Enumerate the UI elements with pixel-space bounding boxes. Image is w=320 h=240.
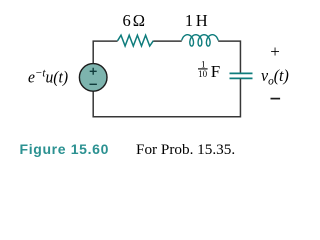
capacitor C bottom plate — [230, 77, 253, 79]
svg-text:10: 10 — [198, 69, 208, 79]
capacitor C top plate — [230, 72, 253, 74]
voltage source minus sign — [90, 83, 97, 85]
wire left branch: from source top up and right to resistor — [93, 41, 117, 63]
svg-text:e−tu(t): e−tu(t) — [28, 67, 68, 87]
svg-text:6Ω: 6Ω — [123, 11, 145, 30]
label capacitor value fraction bar — [198, 68, 208, 70]
caption For Prob. 15.35. — [136, 141, 235, 159]
svg-text:F: F — [211, 62, 220, 81]
wire between resistor and inductor — [153, 40, 181, 42]
voltage source VS circle — [79, 64, 107, 92]
svg-text:vo(t): vo(t) — [261, 66, 289, 88]
caption Figure 15.60 — [20, 141, 110, 157]
inductor L 1H coil — [182, 35, 219, 46]
svg-text:+: + — [270, 42, 280, 61]
label minus output polarity — [271, 98, 281, 100]
wire from capacitor bottom plate down, along bottom, up to source bottom — [93, 79, 240, 117]
label vo(t) output voltage — [261, 66, 289, 88]
wire from inductor to top-right corner down to capacitor top plate — [218, 41, 240, 73]
svg-text:1: 1 — [201, 59, 206, 69]
resistor R 6ohm zigzag — [118, 35, 154, 46]
svg-text:1H: 1H — [185, 11, 208, 30]
label e^-t u(t) source value — [28, 67, 68, 87]
voltage source plus sign — [90, 68, 97, 75]
